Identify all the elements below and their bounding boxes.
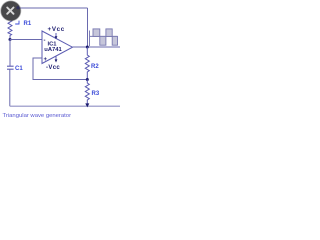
op-amp IC1 uA741 xyxy=(42,31,73,64)
wire output xyxy=(73,46,121,48)
node output junction xyxy=(86,46,89,49)
svg-text:C1: C1 xyxy=(15,66,23,72)
wire top feedback horizontal xyxy=(10,7,88,9)
svg-text:-: - xyxy=(44,38,46,44)
wire minus input xyxy=(10,39,42,41)
svg-text:+: + xyxy=(44,57,48,63)
arrow to rail xyxy=(85,103,89,107)
waveform icon square wave xyxy=(90,29,118,46)
power -Vcc xyxy=(46,57,60,72)
power +Vcc xyxy=(48,26,65,39)
svg-text:R3: R3 xyxy=(92,91,100,97)
svg-text:R1: R1 xyxy=(24,21,32,27)
wire bottom rail xyxy=(10,105,120,107)
resistor R2 xyxy=(85,47,89,80)
label anchor mark xyxy=(15,21,19,24)
wire plus input xyxy=(33,58,87,80)
capacitor C1 xyxy=(7,66,14,69)
wire left vertical xyxy=(9,40,11,67)
resistor R3 xyxy=(85,80,89,104)
svg-text:uA741: uA741 xyxy=(44,47,62,53)
resistor R1 xyxy=(8,8,12,40)
svg-text:-Vcc: -Vcc xyxy=(46,65,60,71)
close button xyxy=(1,1,20,20)
svg-text:R2: R2 xyxy=(91,64,99,70)
wire feedback vertical xyxy=(87,8,89,47)
wire below C1 xyxy=(9,69,11,106)
svg-text:Triangular wave generator: Triangular wave generator xyxy=(3,113,72,119)
node R2/R3 junction xyxy=(86,78,89,81)
node A (R1 / C1 / minus input) xyxy=(9,38,12,41)
svg-text:+Vcc: +Vcc xyxy=(48,26,65,33)
